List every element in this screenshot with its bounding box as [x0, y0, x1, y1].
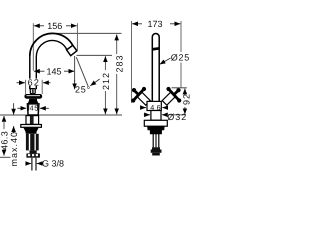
- spout apex extension line: [56, 32, 122, 34]
- dimension diameter 32: [144, 112, 188, 122]
- dimension 156: [33, 21, 77, 71]
- dimension 283: [114, 35, 124, 115]
- shank (front view): [151, 111, 161, 121]
- coupling nut (side view): [26, 153, 40, 157]
- dimension 212: [101, 56, 111, 114]
- svg-text:Ø32: Ø32: [167, 112, 187, 122]
- center body (front view): [147, 101, 161, 110]
- dimension 173: [132, 19, 182, 103]
- spout outlet dark band: [153, 47, 159, 51]
- spout outlet extension line: [77, 54, 113, 56]
- label diameter 25: [160, 53, 191, 65]
- mounting flange (front view): [144, 120, 167, 126]
- svg-text:156: 156: [47, 21, 62, 31]
- coupling (front view): [152, 147, 160, 149]
- spout gooseneck inner arc: [36, 40, 67, 56]
- right cross handle (front view, 45deg): [162, 87, 181, 105]
- svg-text:Ø25: Ø25: [171, 53, 190, 63]
- svg-text:25°: 25°: [75, 84, 91, 94]
- shank below deck (side view): [26, 116, 39, 125]
- svg-text:173: 173: [148, 19, 163, 29]
- second arm right handle: [173, 90, 178, 95]
- shank inner dark stripe: [30, 116, 34, 125]
- cross bar right handle: [168, 89, 179, 101]
- dimension 45: [17, 104, 48, 113]
- svg-text:45: 45: [30, 104, 39, 113]
- spout gooseneck outer arc: [30, 33, 73, 56]
- dimension max.40: [9, 103, 19, 166]
- spout column (front view): [152, 34, 159, 102]
- outlet axis reference line: [74, 56, 76, 82]
- svg-text:92: 92: [181, 93, 190, 105]
- cross bar left handle: [133, 89, 144, 101]
- handle cross bar (side view): [24, 94, 42, 99]
- threaded shank (side view): [26, 134, 39, 151]
- 25 degree leader arrow: [90, 79, 99, 86]
- dimension 92: [172, 88, 192, 114]
- svg-text:145: 145: [47, 67, 62, 77]
- spout aerator collar: [67, 45, 77, 55]
- dimension 145: [34, 67, 75, 77]
- dimension 46.3: [0, 116, 11, 157]
- mounting nut (front view): [147, 127, 164, 135]
- mounting flange washer: [21, 125, 42, 128]
- dimension 46: [140, 107, 168, 109]
- handle hub skirt: [27, 99, 39, 104]
- faucet body (side view): [27, 104, 39, 115]
- valve stem housing right: [162, 92, 175, 105]
- 25 degree flow line: [76, 57, 88, 86]
- valve stem housing left: [137, 92, 150, 105]
- left cross handle (front view, 45deg): [131, 87, 150, 105]
- svg-text:62: 62: [28, 78, 41, 88]
- spout riser left wall: [29, 55, 31, 89]
- dimension 62: [17, 78, 51, 94]
- tailpiece tube (front view): [152, 134, 154, 147]
- svg-text:G 3/8: G 3/8: [42, 158, 64, 168]
- deck reference line: [0, 114, 122, 116]
- dimension G 3/8: [25, 158, 64, 168]
- shank lower block: [30, 150, 37, 153]
- second arm left handle: [134, 90, 139, 95]
- svg-text:283: 283: [114, 54, 124, 72]
- svg-text:max.40: max.40: [9, 131, 19, 167]
- body top corner shading: [28, 104, 30, 111]
- handle top post (side view): [30, 89, 35, 94]
- spout riser right wall: [35, 57, 37, 90]
- svg-text:46.3: 46.3: [0, 131, 9, 150]
- tailpipe G3/8 (side view): [31, 158, 33, 171]
- mounting nut (side view): [23, 128, 38, 134]
- svg-text:212: 212: [101, 72, 111, 90]
